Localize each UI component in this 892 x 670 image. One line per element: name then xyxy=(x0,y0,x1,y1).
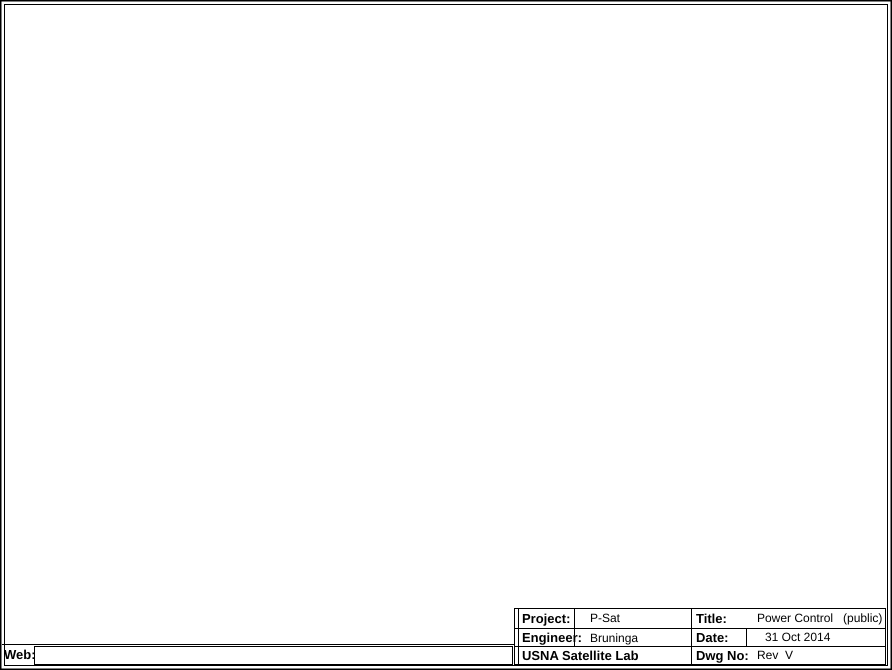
svg-text:Engineer:: Engineer: xyxy=(522,630,582,645)
svg-text:USNA Satellite Lab: USNA Satellite Lab xyxy=(522,648,639,663)
svg-text:Power Control (public): Power Control (public) xyxy=(757,611,882,625)
svg-text:P-Sat: P-Sat xyxy=(590,611,621,625)
svg-text:Web:: Web: xyxy=(4,647,36,662)
svg-text:Dwg No:: Dwg No: xyxy=(696,648,749,663)
title block table xyxy=(515,609,886,665)
svg-text:Date:: Date: xyxy=(696,630,729,645)
svg-text:Rev V: Rev V xyxy=(757,648,793,662)
svg-text:Bruninga: Bruninga xyxy=(590,631,638,645)
svg-text:Project:: Project: xyxy=(522,611,570,626)
svg-text:31 Oct 2014: 31 Oct 2014 xyxy=(765,630,831,644)
svg-text:Title:: Title: xyxy=(696,611,727,626)
web bar xyxy=(2,645,514,665)
